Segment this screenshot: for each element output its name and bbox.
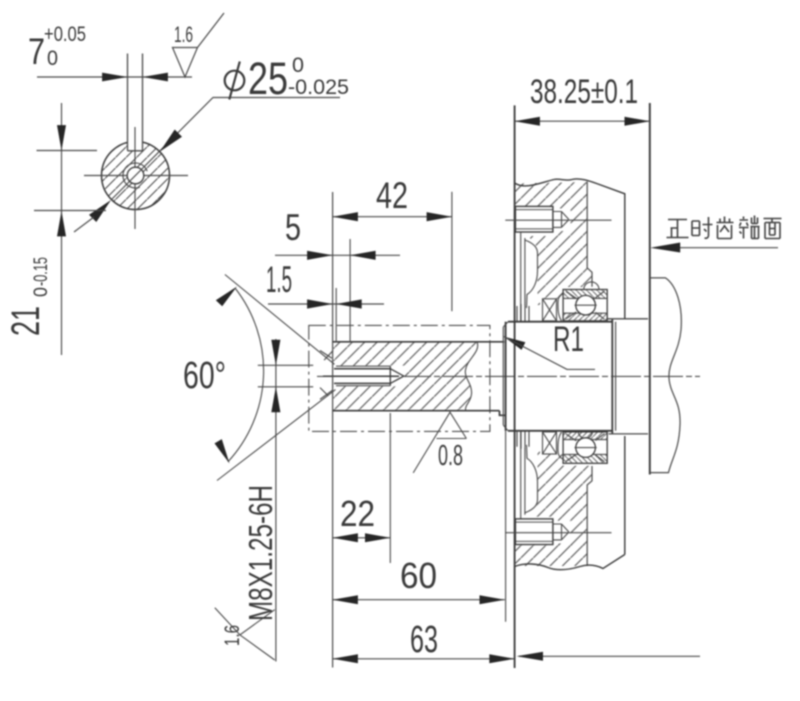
hole white band <box>334 366 405 387</box>
roughness 0.8 symbol under shaft <box>413 412 466 473</box>
tapped hole M8: thread major lines (thin) <box>336 366 390 386</box>
dim 21 arrows <box>57 125 66 150</box>
phantom rectangle outline <box>309 325 490 431</box>
svg-text:42: 42 <box>376 175 408 216</box>
svg-text:0.8: 0.8 <box>438 440 463 472</box>
dim 21 extension lines <box>34 151 106 211</box>
extra leader arrow right of 63 <box>519 655 700 657</box>
hole axis dark segment <box>323 375 399 377</box>
gear partial with break line <box>650 278 682 473</box>
60deg arc <box>228 289 264 462</box>
keyway slot white <box>128 141 143 151</box>
svg-text:21: 21 <box>4 306 48 336</box>
R1 leader <box>504 337 526 350</box>
extension/face lines <box>332 192 334 668</box>
bearing top <box>563 282 607 321</box>
M8 dim vertical <box>275 339 277 662</box>
svg-text:5: 5 <box>285 207 301 248</box>
seal X-box top <box>543 294 564 321</box>
drill cone <box>390 369 404 384</box>
hatch right of top bolt <box>553 206 587 236</box>
duan <box>739 216 760 239</box>
dim 42 <box>333 216 452 218</box>
mouth chamfer X marks <box>320 351 333 400</box>
hub lines <box>607 319 648 434</box>
diameter symbol phi <box>225 71 245 91</box>
svg-text:25: 25 <box>248 53 288 104</box>
bolt top <box>515 206 553 232</box>
mian <box>764 219 782 239</box>
svg-text:+0.05: +0.05 <box>44 23 86 46</box>
60deg cone lines <box>217 275 336 481</box>
dim 21 vertical line <box>61 103 63 355</box>
keyway side lines / extension lines for 7 dim <box>128 54 143 151</box>
housing bottom hatch above bolt <box>526 448 592 517</box>
svg-text:0: 0 <box>292 54 304 77</box>
phi25 leader diagonal <box>111 98 340 201</box>
60 ext continuation of step face <box>505 431 507 622</box>
bore line top <box>587 182 592 287</box>
housing top hatch main <box>526 236 592 305</box>
journal section of shaft <box>506 319 613 434</box>
svg-text:1.5: 1.5 <box>266 259 292 300</box>
svg-text:7: 7 <box>28 31 45 72</box>
tapped hole minor lines (thick) <box>334 369 390 384</box>
dim 63 <box>333 658 515 660</box>
svg-text:R1: R1 <box>553 320 584 359</box>
phi25 arrow upper <box>160 130 182 152</box>
housing top hatch band above bolt <box>515 182 588 206</box>
tapped hole inner circle <box>127 167 144 184</box>
center lines <box>84 127 188 229</box>
timing gear face line <box>649 103 651 475</box>
chi <box>717 217 734 239</box>
thread callout M8X1.25-6H (rotated) <box>242 485 279 621</box>
housing top outline wavy <box>515 179 625 319</box>
crankcase face line <box>514 105 516 668</box>
roughness value 1.6 (rotated) <box>221 625 244 646</box>
roughness symbol at M8 <box>215 608 275 660</box>
main axis centerline <box>317 375 700 377</box>
svg-text:63: 63 <box>410 619 438 661</box>
shaft cross-section circle hatched <box>102 142 170 210</box>
dim 60 <box>333 599 505 601</box>
svg-text:60: 60 <box>400 555 437 596</box>
shi <box>692 217 713 238</box>
svg-text:0: 0 <box>47 47 58 70</box>
thread end line <box>389 366 391 386</box>
housing bottom wavy edge <box>515 555 625 570</box>
svg-text:1.6: 1.6 <box>221 625 244 646</box>
Chinese annotation 正时齿端面 drawn as strokes <box>667 216 782 239</box>
dim 22 <box>333 537 391 539</box>
bolt bottom <box>515 519 553 545</box>
dim 7 line <box>37 76 192 78</box>
zheng <box>667 220 689 238</box>
thread major arc <box>123 163 147 188</box>
svg-text:0: 0 <box>31 287 52 297</box>
dim 5 <box>275 254 400 256</box>
hatch right of bottom bolt <box>553 517 587 546</box>
roughness 1.6 triangle <box>173 13 225 77</box>
dim text 21 with tolerance (rotated) <box>4 257 52 336</box>
svg-text:-0.025: -0.025 <box>288 76 349 99</box>
pocket profile top <box>521 232 538 322</box>
seal plate lines top <box>517 304 529 322</box>
wavy break edge stroke <box>465 342 477 411</box>
svg-text:22: 22 <box>340 493 375 534</box>
seal plate lines bottom <box>517 431 529 449</box>
shaft hatched section with wavy break edge <box>334 342 478 411</box>
dim 38.25 <box>515 120 650 122</box>
housing bottom hatch below bolt <box>515 545 588 567</box>
bearing bottom (mirror) <box>563 432 607 463</box>
timing gear leader <box>654 247 778 249</box>
seal X-box bottom <box>543 432 564 459</box>
svg-text:60°: 60° <box>183 355 226 397</box>
svg-text:38.25±0.1: 38.25±0.1 <box>530 73 638 111</box>
phi25 arrow lower <box>89 200 111 222</box>
pocket profile bottom <box>521 431 538 521</box>
bore line bottom <box>587 466 592 566</box>
svg-text:1.6: 1.6 <box>174 22 193 47</box>
shaft top/bottom lines <box>333 342 506 416</box>
housing right edge bottom <box>624 436 626 555</box>
svg-text:-0.15: -0.15 <box>31 257 52 286</box>
svg-text:M8X1.25-6H: M8X1.25-6H <box>242 485 279 621</box>
dim 7 arrows <box>102 73 127 82</box>
arc arrows <box>216 287 237 307</box>
dim 1.5 <box>268 303 384 305</box>
